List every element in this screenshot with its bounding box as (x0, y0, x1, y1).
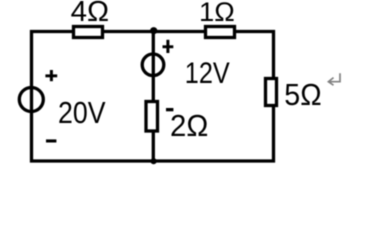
svg-text:1Ω: 1Ω (199, 0, 235, 27)
pilcrow return mark (gray) (328, 73, 340, 85)
node junction top (150, 27, 157, 34)
wire outer loop (32, 32, 274, 162)
minus sign of 2ohm resistor polarity (166, 108, 173, 111)
resistor R3 2ohm (vertical, middle) (146, 102, 158, 132)
resistor R2 1ohm (206, 27, 235, 38)
resistor R4 5ohm (vertical, right) (266, 79, 277, 106)
svg-text:20V: 20V (58, 97, 106, 130)
wire middle branch (152, 32, 155, 162)
svg-text:5Ω: 5Ω (284, 79, 321, 112)
svg-text:12V: 12V (185, 57, 230, 90)
voltage source Vs2 12V (circle, middle branch) (142, 54, 164, 76)
voltage source Vs1 20V (circle, left branch) (19, 88, 43, 112)
plus sign of 12V source (163, 40, 174, 53)
node junction bottom (151, 158, 157, 164)
svg-text:2Ω: 2Ω (170, 108, 208, 143)
minus sign of 20V source (46, 139, 56, 142)
svg-text:4Ω: 4Ω (71, 0, 109, 27)
plus sign of 20V source (45, 70, 57, 81)
resistor R1 4ohm (74, 27, 103, 38)
